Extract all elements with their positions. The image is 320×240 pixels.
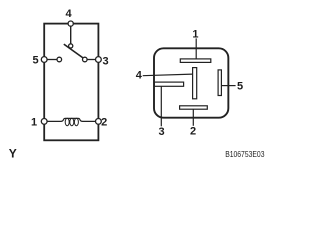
- svg-text:2: 2: [190, 126, 196, 138]
- svg-text:2: 2: [101, 116, 107, 128]
- svg-text:4: 4: [65, 8, 72, 20]
- svg-text:B106753E03: B106753E03: [225, 149, 264, 159]
- svg-text:4: 4: [136, 69, 143, 81]
- svg-text:5: 5: [32, 55, 38, 67]
- svg-text:Y: Y: [9, 146, 17, 160]
- svg-text:3: 3: [158, 126, 164, 138]
- svg-text:1: 1: [192, 29, 198, 41]
- svg-text:5: 5: [237, 81, 243, 93]
- svg-text:1: 1: [31, 116, 37, 128]
- svg-text:3: 3: [102, 55, 108, 67]
